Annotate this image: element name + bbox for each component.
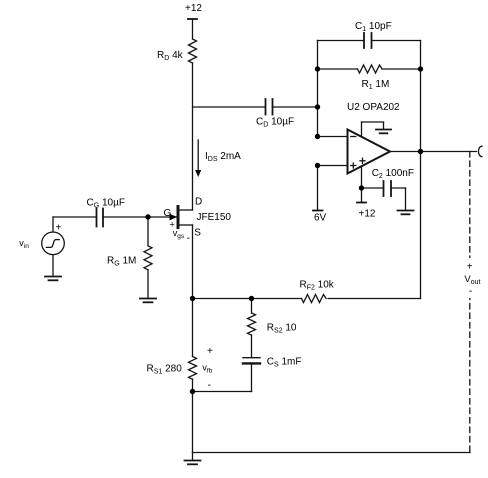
svg-text:-: - [208,380,211,391]
svg-text:RF2 10k: RF2 10k [300,280,335,292]
svg-text:6V: 6V [314,213,327,224]
svg-text:C2 100nF: C2 100nF [372,168,414,180]
svg-text:+: + [467,262,473,273]
svg-text:+12: +12 [185,3,202,14]
svg-text:JFE150: JFE150 [197,212,232,223]
svg-text:+: + [170,220,175,230]
svg-text:+: + [56,223,62,234]
svg-text:+12: +12 [359,209,376,220]
svg-text:U2 OPA202: U2 OPA202 [347,102,400,113]
svg-text:-: - [187,233,190,244]
svg-text:S: S [194,228,201,239]
svg-text:RS1 280: RS1 280 [147,364,183,376]
svg-text:RG 1M: RG 1M [107,255,136,267]
svg-text:-: - [469,286,472,297]
svg-text:RS2 10: RS2 10 [267,323,297,335]
svg-text:R1 1M: R1 1M [362,79,390,91]
svg-text:CD 10µF: CD 10µF [256,116,294,128]
svg-text:C1 10pF: C1 10pF [355,21,392,33]
svg-text:RD 4k: RD 4k [157,50,184,62]
svg-text:CG 10µF: CG 10µF [87,198,125,210]
svg-text:CS 1mF: CS 1mF [267,357,302,369]
svg-text:D: D [195,197,202,208]
svg-text:+: + [207,346,213,357]
svg-text:G: G [164,208,172,219]
